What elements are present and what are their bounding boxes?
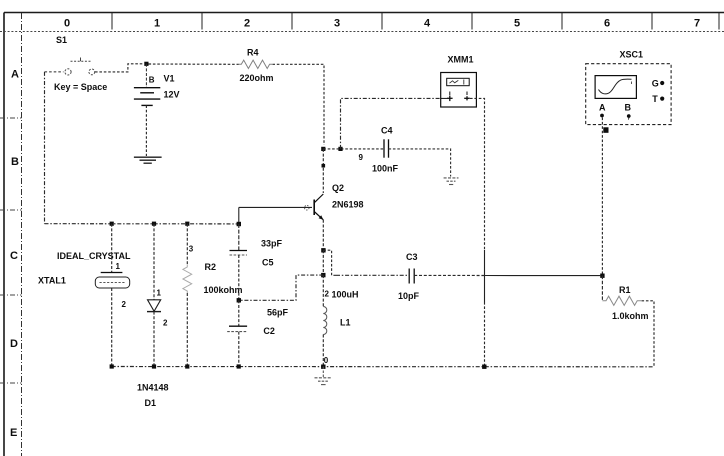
svg-text:100nF: 100nF	[372, 164, 399, 174]
wire tap node to L1	[322, 275, 324, 306]
wire R2 to ground rail	[186, 293, 188, 367]
junction rail C2	[237, 364, 241, 368]
svg-text:1: 1	[116, 262, 121, 271]
junction top rail C5	[237, 222, 241, 226]
junction dot on collector wire	[322, 164, 326, 168]
junction top rail D1	[152, 222, 156, 226]
junction rail L1 ground node	[321, 365, 325, 369]
transistor Q2	[305, 194, 324, 220]
wire C5 node vertical top	[238, 207, 240, 224]
switch S1	[45, 58, 95, 76]
wire R1 node down	[601, 276, 603, 301]
svg-text:100uH: 100uH	[332, 290, 359, 300]
diode D1	[147, 300, 161, 312]
svg-text:10pF: 10pF	[398, 291, 420, 301]
svg-text:2: 2	[325, 290, 330, 299]
wire emitter node down to tap node	[322, 250, 324, 275]
wire top rail to XTAL1	[111, 224, 113, 273]
svg-text:5: 5	[514, 18, 520, 30]
wire C4 to ground	[389, 149, 451, 177]
svg-text:C: C	[10, 250, 18, 262]
crystal XTAL1	[95, 273, 129, 289]
svg-text:E: E	[10, 427, 17, 439]
svg-text:220ohm: 220ohm	[240, 73, 274, 83]
svg-text:C2: C2	[263, 326, 275, 336]
svg-text:R4: R4	[247, 48, 259, 58]
svg-text:1N4148: 1N4148	[137, 383, 169, 393]
capacitor C2	[227, 326, 248, 331]
svg-text:3: 3	[189, 245, 194, 254]
wire C5 to C2 tap	[238, 255, 240, 300]
battery V1	[134, 88, 160, 106]
svg-text:1: 1	[154, 18, 160, 30]
junction rail D1	[152, 364, 156, 368]
capacitor C3	[409, 269, 414, 284]
svg-text:9: 9	[359, 153, 364, 162]
svg-text:12V: 12V	[164, 90, 180, 100]
svg-text:C5: C5	[262, 258, 274, 268]
wire XMM1 minus vertical solid part	[484, 250, 486, 302]
inductor L1	[323, 307, 327, 335]
wire top rail to R2	[186, 224, 188, 265]
transistor Q2 emitter arrow	[319, 215, 324, 220]
ground under L1	[315, 367, 332, 385]
wire C3 row left	[336, 274, 409, 276]
wire C3 to R1 node dashed part	[414, 274, 484, 276]
wire V1 top pin	[145, 64, 147, 88]
svg-text:2: 2	[163, 319, 168, 328]
junction rail XMM1 wire	[482, 365, 486, 369]
oscilloscope XSC1	[586, 64, 671, 125]
svg-text:3: 3	[334, 18, 340, 30]
XSC1 A node square	[603, 127, 608, 133]
junction node B at V1 top	[144, 62, 148, 66]
wire R4 to collector node	[272, 64, 324, 145]
svg-text:S1: S1	[56, 35, 67, 45]
svg-text:B: B	[625, 103, 632, 113]
capacitor C5	[230, 251, 248, 256]
ground under V1	[134, 157, 162, 163]
wire C3 to R1 node solid part	[485, 275, 601, 277]
wire Q2 base from C5 node	[239, 206, 312, 208]
svg-text:56pF: 56pF	[267, 308, 289, 318]
svg-text:T: T	[652, 94, 658, 104]
junction top rail XTAL1	[110, 222, 114, 226]
wire C5 node down to C5	[238, 224, 240, 251]
svg-text:A: A	[599, 103, 606, 113]
svg-text:XMM1: XMM1	[448, 55, 474, 65]
wire C2 to ground rail	[238, 332, 240, 367]
svg-text:2: 2	[122, 300, 127, 309]
junction tap node above L1	[321, 273, 325, 277]
wire S1 to V1 top node	[95, 64, 144, 72]
wire XTAL1 to ground rail	[111, 288, 113, 367]
capacitor C4	[384, 139, 389, 157]
svg-text:0: 0	[324, 356, 329, 365]
junction XMM1 tap	[338, 147, 342, 151]
wire XSC1 A down to R1 node	[601, 118, 603, 274]
wire collector node down to Q2	[322, 149, 324, 193]
svg-text:R2: R2	[205, 262, 217, 272]
svg-text:2N6198: 2N6198	[332, 200, 364, 210]
junction R1 top node	[600, 274, 604, 278]
svg-text:1: 1	[157, 289, 162, 298]
wire XMM1 tap up and right to XMM1 plus	[341, 98, 442, 148]
wire V1 bottom to ground	[145, 105, 147, 156]
wire Q2 emitter down	[322, 220, 324, 248]
svg-text:D1: D1	[145, 398, 157, 408]
wire L1 to ground rail	[322, 335, 324, 367]
wire V1 top node to R4	[149, 63, 239, 65]
wire top rail to D1	[153, 224, 155, 300]
wire left loop from S1 down	[44, 72, 46, 224]
svg-text:IDEAL_CRYSTAL: IDEAL_CRYSTAL	[57, 251, 131, 261]
svg-text:L1: L1	[340, 318, 351, 328]
junction rail R2	[185, 364, 189, 368]
svg-text:100kohm: 100kohm	[204, 285, 243, 295]
wire top rail	[45, 223, 239, 225]
svg-text:R1: R1	[619, 285, 631, 295]
wire D1 to ground rail	[153, 312, 155, 367]
ground under C4	[444, 178, 459, 185]
svg-text:D: D	[10, 338, 18, 350]
resistor R1	[602, 296, 641, 305]
resistor R4	[239, 60, 272, 68]
wire collector node to C4	[323, 148, 384, 150]
svg-text:33pF: 33pF	[261, 239, 283, 249]
junction C2 tap node	[237, 298, 241, 302]
svg-text:2: 2	[244, 18, 250, 30]
wire XMM1 minus down to ground rail	[470, 98, 485, 250]
svg-text:V1: V1	[164, 74, 175, 84]
svg-text:1.0kohm: 1.0kohm	[612, 311, 649, 321]
junction emitter node	[321, 248, 325, 252]
wire C2 tap to C2	[238, 300, 240, 326]
svg-text:0: 0	[64, 18, 70, 30]
svg-text:B: B	[149, 76, 155, 85]
svg-text:XTAL1: XTAL1	[38, 276, 66, 286]
junction rail XTAL1	[110, 364, 114, 368]
junction top rail R2	[185, 222, 189, 226]
wire emitter node jog to C3 row	[323, 250, 336, 275]
wire XMM1 minus vertical lower part	[484, 302, 486, 367]
wire ground rail	[112, 366, 654, 368]
wire R1 right down to ground rail	[642, 301, 655, 367]
svg-text:6: 6	[604, 18, 610, 30]
multimeter XMM1	[441, 73, 477, 108]
svg-text:B: B	[11, 156, 19, 168]
svg-text:4: 4	[424, 18, 431, 30]
svg-text:XSC1: XSC1	[620, 50, 644, 60]
svg-text:A: A	[11, 69, 19, 81]
svg-text:C4: C4	[381, 126, 393, 136]
junction collector node	[321, 147, 325, 151]
svg-text:Q2: Q2	[332, 183, 344, 193]
wire tap node left to C2 tap	[241, 275, 323, 300]
svg-text:7: 7	[694, 18, 700, 30]
svg-text:Key = Space: Key = Space	[54, 82, 107, 92]
svg-text:G: G	[652, 78, 659, 88]
resistor R2	[183, 265, 192, 293]
svg-text:C3: C3	[406, 252, 418, 262]
